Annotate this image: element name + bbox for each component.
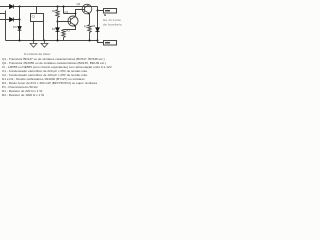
wire right vertical xyxy=(97,7,99,41)
svg-text:CI: CI xyxy=(32,14,35,18)
wire bottom rail xyxy=(6,40,98,42)
wire Q2 base link xyxy=(76,10,85,17)
terminal P1 (output plug) xyxy=(104,9,117,14)
wire lower secondary xyxy=(0,19,20,21)
junction D4 bottom xyxy=(57,40,59,42)
wire node A down xyxy=(19,7,21,20)
svg-text:de bombeio: de bombeio xyxy=(103,23,122,27)
wire transformer center tap xyxy=(0,11,6,41)
junction top terminal xyxy=(97,10,99,12)
node C (R1 bottom junction) xyxy=(57,21,59,23)
diode D4 xyxy=(57,22,59,41)
resistor R3 xyxy=(88,25,91,41)
diode D5 xyxy=(96,28,100,32)
svg-text:R2: R2 xyxy=(66,28,70,32)
node A (rectifier output junction) xyxy=(19,6,21,8)
svg-text:R2 - Resistor de 1000 Ω x 1 W: R2 - Resistor de 1000 Ω x 1 W xyxy=(2,93,44,97)
svg-text:R1: R1 xyxy=(52,9,56,13)
svg-text:D4: D4 xyxy=(52,27,56,31)
label pin mark xyxy=(104,14,106,16)
parts list xyxy=(2,57,113,97)
wire to bottom terminal xyxy=(98,41,104,43)
wire zener branch xyxy=(19,20,21,41)
junction g1 xyxy=(33,40,35,42)
node B (D2 junction) xyxy=(19,19,21,21)
svg-text:O circuito do timer: O circuito do timer xyxy=(24,52,50,56)
junction base link xyxy=(75,13,77,15)
wire Q1 emitter xyxy=(64,26,76,30)
junction bottom terminal xyxy=(97,40,99,42)
svg-text:Q2: Q2 xyxy=(77,2,81,6)
svg-text:D5: D5 xyxy=(92,24,96,28)
wire CI pin lead 1 xyxy=(33,22,35,41)
wire base branch xyxy=(58,21,71,23)
junction R1 top xyxy=(57,6,59,8)
svg-text:D3: D3 xyxy=(13,25,17,29)
zener D3 xyxy=(18,26,22,30)
svg-text:R3: R3 xyxy=(84,24,88,28)
op-amp U1 (CI 555 box) xyxy=(31,14,44,22)
wire Q2 emitter down xyxy=(89,13,91,24)
resistor R1 xyxy=(56,7,59,22)
junction rail x64 xyxy=(63,6,65,8)
junction bottom-left xyxy=(19,40,21,42)
resistor R2 xyxy=(62,30,65,41)
wire CI Vcc lead xyxy=(36,7,38,14)
wire to top terminal xyxy=(98,10,104,12)
transistor Q2 xyxy=(82,4,92,15)
junction R3 bottom xyxy=(89,40,91,42)
ground xyxy=(30,41,37,48)
wire top rail xyxy=(0,6,98,8)
wire Q1 collector to rail xyxy=(64,7,76,17)
svg-text:Ao circuito: Ao circuito xyxy=(103,18,121,22)
terminal P2 (output plug) xyxy=(104,41,117,46)
ground xyxy=(41,41,48,48)
transistor Q1 xyxy=(68,16,78,27)
wire CI pin lead 2 xyxy=(43,22,45,41)
diode D2 xyxy=(10,17,14,21)
junction g2 xyxy=(44,40,46,42)
diode D1 xyxy=(10,4,14,8)
